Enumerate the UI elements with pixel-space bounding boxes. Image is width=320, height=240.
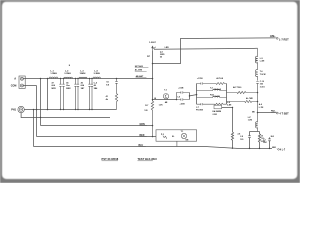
wire emitter stub to CR4 (153, 38, 276, 64)
svg-text:R-7: R-7 (145, 105, 148, 107)
svg-text:3-001: 3-001 (260, 86, 265, 88)
coil T-6 (256, 70, 258, 81)
junction loop1 exit (189, 95, 191, 97)
resistor AL-7MK (227, 100, 258, 102)
svg-text:1.2M: 1.2M (248, 120, 253, 122)
capacitor branch BL2 (268, 137, 270, 148)
capacitor C-3b (91, 79, 93, 110)
capacitor C-3a (88, 79, 90, 110)
branch capacitor+resistor top (197, 82, 227, 84)
inductor L-2 (64, 77, 72, 78)
svg-text:#4: #4 (261, 135, 263, 138)
junction rail/C-3b (91, 78, 92, 79)
svg-text:CR4: CR4 (270, 34, 275, 37)
capacitor branch 2-8 (248, 132, 250, 149)
svg-text:GM: GM (185, 140, 188, 142)
capacitor C-2a (74, 79, 76, 110)
capacitor C-10 (256, 82, 258, 113)
wire PH1 shield (21, 113, 110, 118)
svg-text:120: 120 (240, 139, 243, 141)
svg-text:L-5: L-5 (260, 58, 263, 60)
svg-text:15MH: 15MH (80, 73, 86, 75)
transistor Q1 symbol (152, 46, 156, 50)
junction bus/C-2b (77, 109, 78, 110)
transistor T-1 inner (165, 94, 167, 99)
junction chain/AL-7MK (257, 101, 259, 103)
tick box to BLU (176, 141, 178, 146)
junction network2 entry (196, 94, 198, 96)
svg-text:ALT 7500: ALT 7500 (233, 86, 241, 89)
connector J1 pin A (20, 77, 23, 80)
junction loop1 left (176, 99, 178, 101)
terminal BLU end (277, 148, 278, 150)
terminal RED (276, 112, 278, 114)
wire riser BLU (33, 110, 35, 147)
junction rail/C-3a (89, 78, 90, 79)
svg-text:7.2b/7M: 7.2b/7M (214, 96, 221, 98)
junction rail/C-2b (77, 78, 78, 79)
wire riser mid (232, 108, 234, 133)
svg-text:A: A (14, 77, 16, 81)
wire GRN line (41, 125, 154, 127)
svg-text:T-5CM: T-5CM (260, 74, 266, 76)
svg-text:3.3MH: 3.3MH (64, 73, 71, 75)
wire T-1 branch (153, 99, 177, 101)
svg-text:BL2: BL2 (271, 136, 274, 138)
svg-text:T-1: T-1 (164, 90, 167, 92)
svg-text:2.4M: 2.4M (227, 104, 232, 107)
junction rail/C-5 branch (116, 78, 118, 80)
resistor R-7 (151, 101, 153, 137)
junction rail/C-1b (63, 78, 64, 79)
border frame (0, 0, 300, 183)
wire riser GRN (40, 79, 42, 126)
wire COM pin (23, 85, 36, 87)
svg-text:25M: 25M (263, 142, 267, 144)
inductor L-1 (49, 77, 58, 78)
junction bottom/BL2 (269, 148, 271, 150)
connector PH1 inner (19, 108, 22, 111)
wire collector LED line (154, 48, 258, 49)
junction rail/Q1 vertical (152, 78, 154, 80)
underline PE2 (271, 111, 276, 113)
svg-text:TEST BLK-REC: TEST BLK-REC (138, 157, 158, 161)
junction bus/C-3a (89, 109, 90, 110)
svg-text:P-2: P-2 (161, 134, 164, 136)
junction GRN/Q1 vertical (152, 125, 154, 127)
junction bottom/riser mid (232, 147, 234, 149)
capacitor C-1a (59, 79, 61, 110)
fuse symbol in box (163, 136, 167, 139)
svg-text:2-8: 2-8 (238, 133, 241, 135)
network2 left rail (196, 84, 198, 105)
svg-text:+1/700: +1/700 (197, 78, 203, 80)
wire ground bus (24, 109, 116, 111)
lamp P-1 (181, 133, 186, 138)
junction chain/ALT7500 (257, 92, 259, 94)
svg-text:EA-5HBM: EA-5HBM (213, 110, 222, 113)
junction node MD (257, 112, 259, 114)
wire bottom tee (250, 131, 260, 133)
wire riser C-in (47, 79, 49, 110)
junction T-1 branch (152, 99, 154, 101)
wire rect to riser (222, 107, 233, 109)
junction rail/C-1a (60, 78, 61, 79)
junction bus/C-2a (75, 109, 76, 110)
svg-text:C-8: C-8 (177, 97, 180, 99)
connector PH1 outer (18, 106, 24, 112)
capacitor loop1 bottom (177, 98, 190, 100)
branch coil PLB (197, 96, 227, 97)
wire RED line (37, 136, 157, 138)
svg-text:4 T BST: 4 T BST (279, 113, 289, 116)
inductor L-4 (93, 77, 100, 78)
capacitor loop1 top (177, 91, 190, 99)
svg-text:1-9007: 1-9007 (149, 42, 157, 44)
junction rail/GRN riser (40, 78, 42, 80)
svg-text:L-5M: L-5M (260, 61, 265, 63)
terminal CR4 (276, 37, 278, 39)
svg-text:65: 65 (160, 56, 162, 58)
junction rail/C-in riser (47, 78, 49, 80)
svg-text:COM: COM (11, 85, 17, 88)
wire loop1 right (190, 93, 197, 100)
svg-text:1.2K: 1.2K (159, 105, 164, 107)
junction bus/C-3b (91, 109, 92, 110)
svg-text:BLU: BLU (139, 145, 144, 147)
svg-text:PH1: PH1 (11, 108, 16, 111)
svg-text:T-1: T-1 (181, 131, 184, 133)
svg-text:PST ID-M508: PST ID-M508 (102, 157, 119, 161)
coil L-P (256, 113, 258, 132)
svg-text:120: 120 (144, 110, 147, 112)
junction bottom/resistor branch (259, 148, 261, 150)
wire MD out RED (258, 112, 276, 114)
resistor ALT7500 (227, 91, 258, 93)
junction bus/BLU riser (33, 109, 35, 111)
coil L-5 (255, 48, 257, 70)
connector J1 pin COM (20, 84, 23, 87)
svg-text:LED: LED (165, 47, 170, 49)
junction bus/C-1a (60, 109, 61, 110)
wire rail from pin A (23, 78, 153, 80)
svg-text:4 L-7: 4 L-7 (280, 148, 286, 151)
box P assembly (156, 130, 197, 141)
resistor branch (258, 132, 260, 149)
svg-text:C-10: C-10 (260, 81, 264, 83)
svg-text:AL-7MK: AL-7MK (246, 97, 253, 100)
resistor R-8 (231, 132, 233, 148)
capacitor C-2b (77, 79, 79, 110)
svg-text:CBL/NaM: CBL/NaM (214, 89, 222, 91)
svg-text:L-7 RST: L-7 RST (279, 38, 289, 42)
junction Q1 emitter stub (152, 63, 154, 65)
branch coil T-2 (197, 89, 227, 90)
svg-text:MFD: MFD (52, 88, 57, 90)
svg-text:RED: RED (140, 135, 145, 137)
svg-text:+1/3B: +1/3B (180, 103, 186, 105)
svg-text:GRN: GRN (140, 124, 145, 126)
svg-text:MBV: MBV (66, 88, 71, 90)
svg-text:PH-7EN: PH-7EN (196, 109, 204, 111)
junction bottom/cap 2-8 (249, 148, 251, 150)
svg-text:T-6: T-6 (260, 71, 263, 73)
svg-text:3.3MH: 3.3MH (94, 73, 101, 75)
junction bus/RED riser (36, 109, 38, 111)
transistor T-1 circle (163, 94, 168, 99)
svg-text:+1/3B: +1/3B (178, 88, 184, 90)
junction rail/C-2a (75, 78, 76, 79)
junction riser mid top (232, 107, 233, 108)
svg-text:2-8: 2-8 (240, 136, 243, 138)
svg-text:T-2: T-2 (210, 87, 213, 89)
svg-text:ALT-8.8: ALT-8.8 (216, 77, 223, 80)
branch capacitor bottom (197, 103, 227, 105)
component rect C-7 (214, 105, 222, 109)
svg-text:68: 68 (154, 98, 156, 100)
svg-text:2.2M: 2.2M (213, 114, 218, 116)
svg-text:L-7M: L-7M (259, 107, 264, 109)
junction shield/GRN riser (40, 117, 41, 118)
capacitor C-1b (62, 79, 64, 110)
capacitor C-5 + resistor branch (115, 79, 117, 110)
svg-text:300: 300 (260, 84, 263, 86)
wire BLU line (34, 147, 273, 149)
network2 right rail (226, 84, 228, 105)
underline CR4 (270, 36, 276, 38)
page background (0, 0, 300, 183)
junction RED/Q1 vertical (152, 136, 154, 138)
wire riser RED (36, 86, 38, 137)
junction bus/C-1b (63, 109, 64, 110)
svg-text:1.5MH: 1.5MH (50, 73, 57, 75)
connector J1 body (19, 76, 25, 88)
inductor L-3 (79, 77, 87, 78)
junction bus/C-in riser (47, 109, 49, 111)
wire Q1 main vertical (152, 51, 154, 101)
